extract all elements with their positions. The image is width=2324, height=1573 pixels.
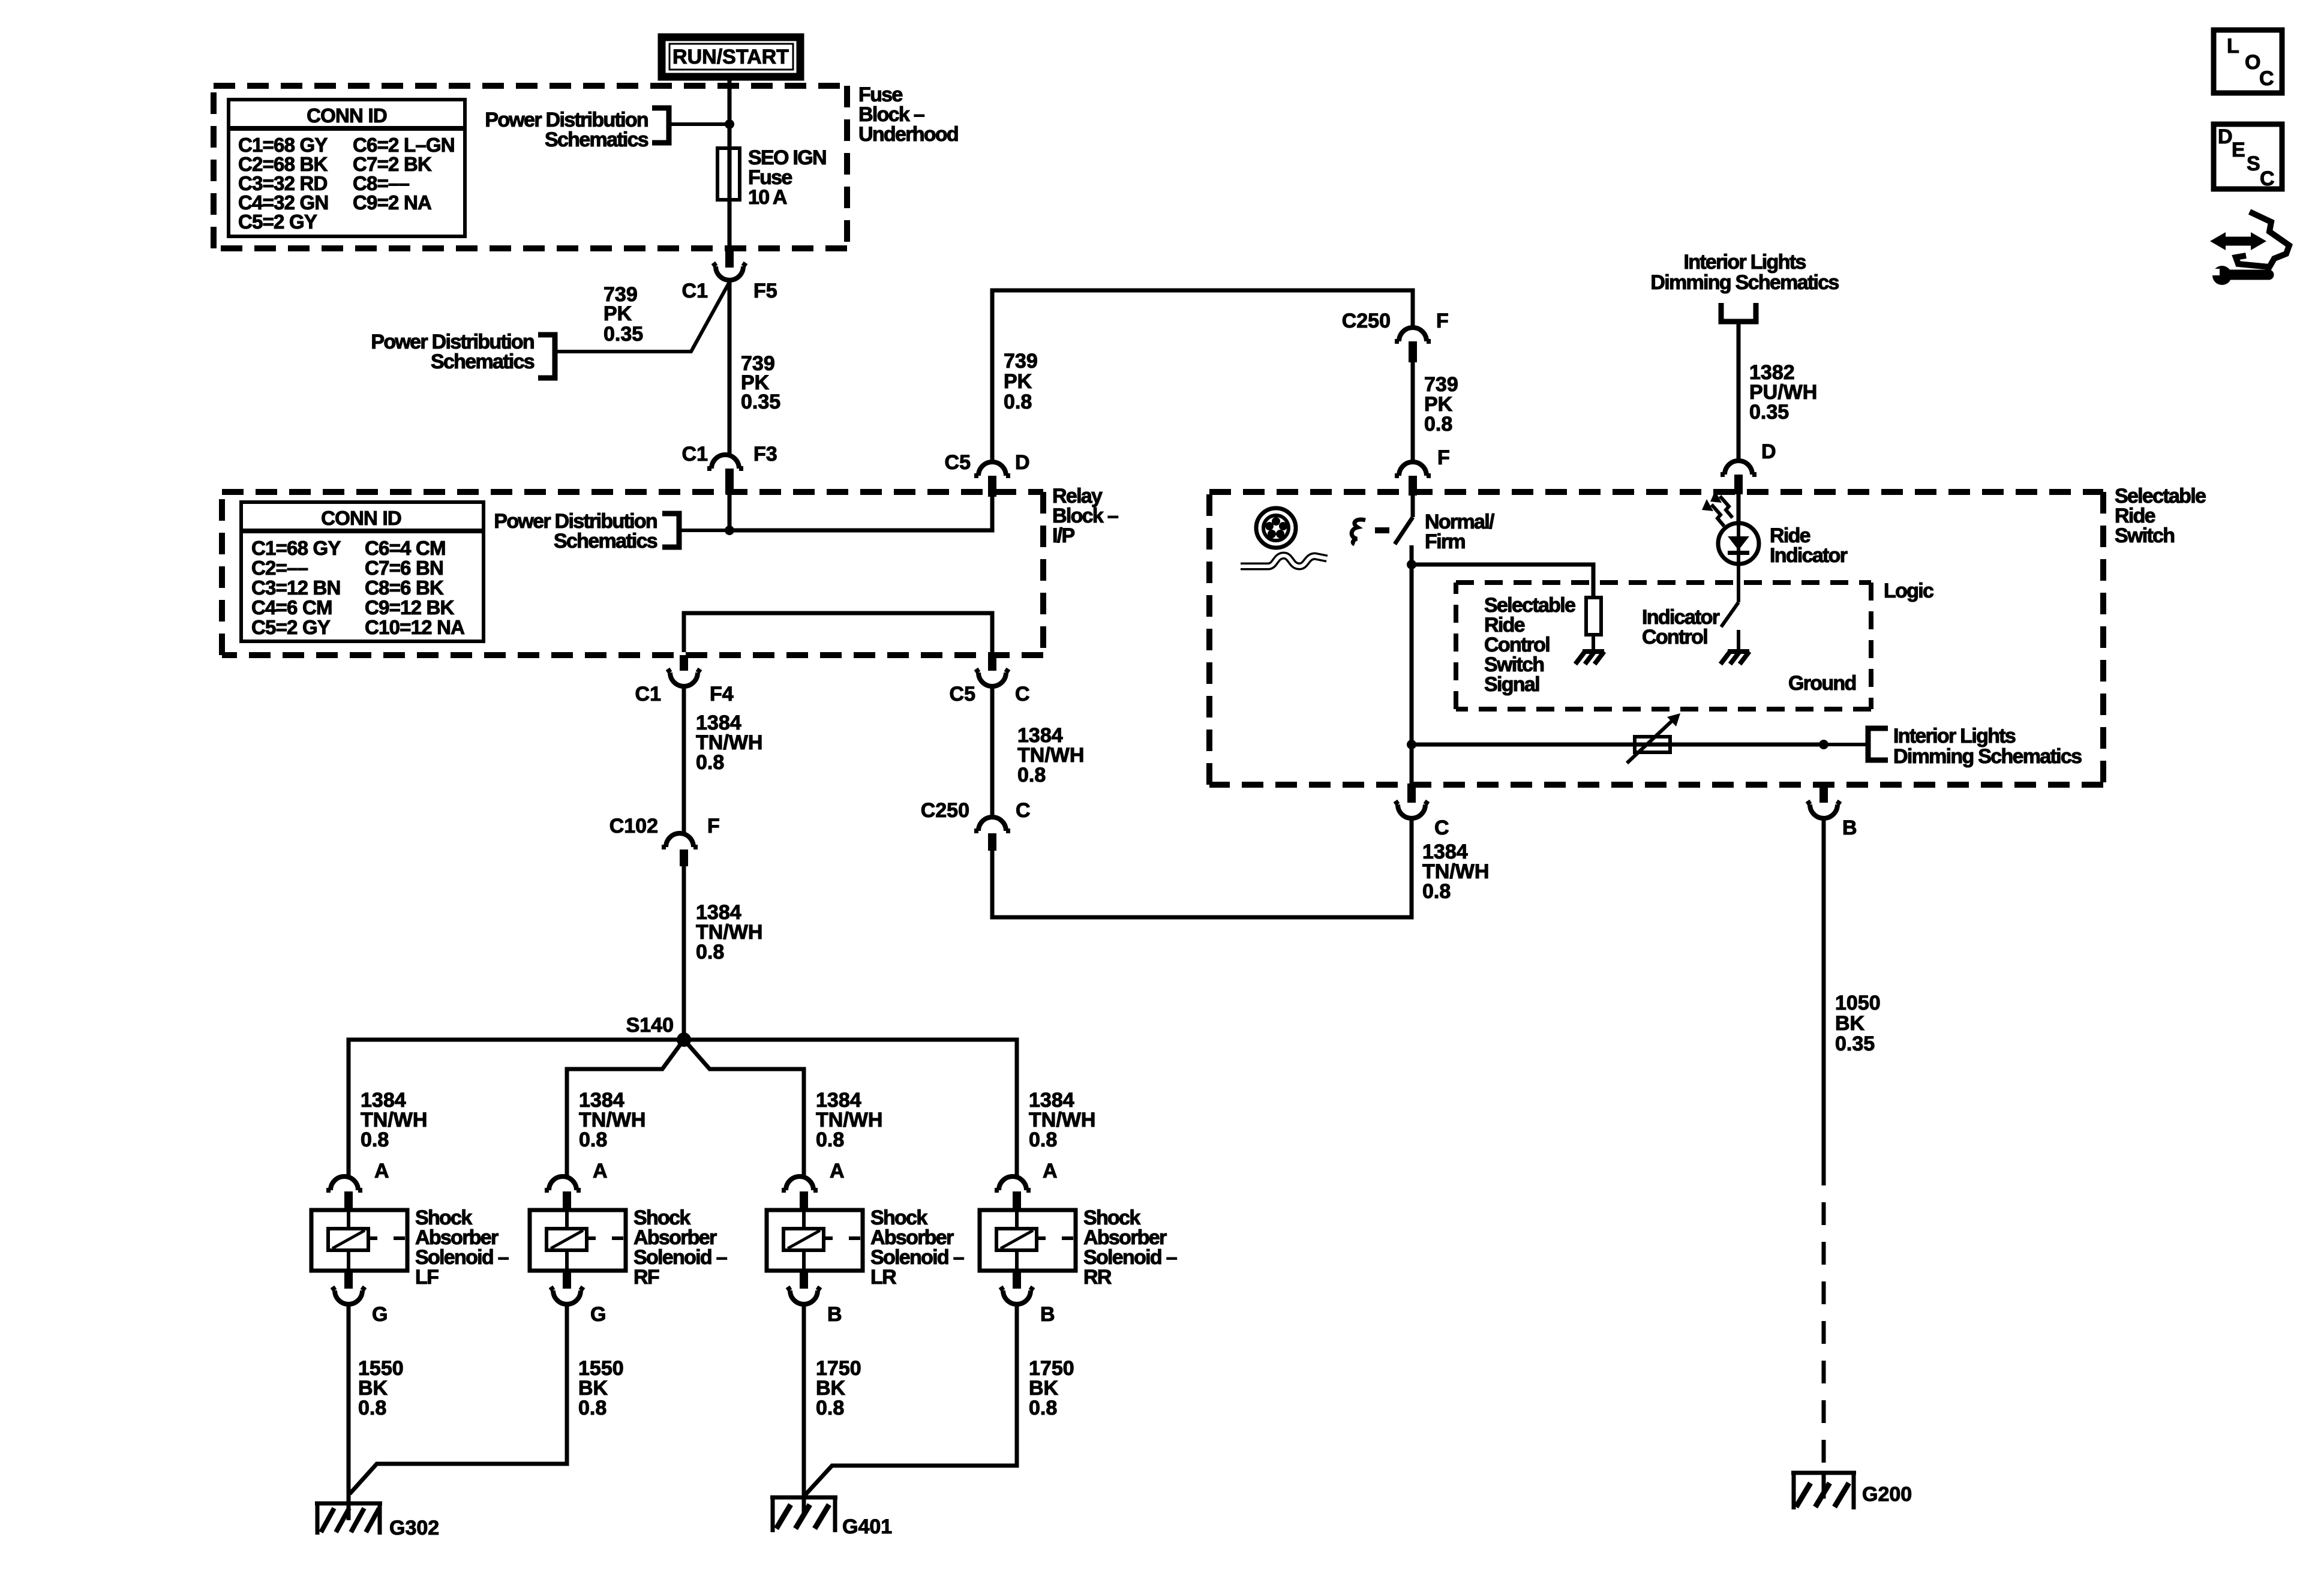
connector C5 D: [945, 451, 1030, 497]
resistor (switch signal pull-up): [1586, 598, 1601, 635]
svg-text:CONN ID: CONN ID: [307, 104, 387, 127]
wire F into switch: [1411, 496, 1415, 517]
wire LED to indicator control switch: [1737, 564, 1740, 602]
Relay Block - I/P dashed box: [222, 492, 1043, 655]
svg-text:F3: F3: [753, 443, 777, 466]
svg-text:Ground: Ground: [1788, 672, 1856, 695]
dashed ground run to G200: [1822, 1163, 1826, 1470]
road wave icon: [1241, 556, 1327, 566]
svg-text:A: A: [593, 1160, 608, 1182]
svg-text:RUN/START: RUN/START: [672, 46, 789, 68]
Fuse Block - Underhood dashed box: [214, 86, 847, 248]
bracket to Interior Lights Dimming Schematics: [1868, 728, 1888, 760]
connector C (switch bottom): [1395, 784, 1449, 839]
connector C1 F3: [682, 443, 777, 494]
top horizontal wire to C250 branch: [992, 290, 1413, 462]
wire relay junction to C5 D: [729, 497, 992, 530]
wire bracket to relay junction: [679, 529, 729, 532]
svg-text:L: L: [2227, 35, 2239, 58]
LED Ride Indicator: [1718, 523, 1759, 564]
LOC navigation box: [2214, 30, 2282, 93]
CONN ID table (fuse block): [229, 100, 465, 236]
junction node in relay block: [725, 526, 734, 535]
S140 inner branch right: [684, 1040, 804, 1176]
rheostat (illumination dimmer): [1627, 713, 1680, 763]
svg-text:D: D: [1015, 451, 1030, 474]
wire junction down to connector C: [1410, 565, 1414, 784]
svg-text:C1: C1: [682, 443, 708, 466]
svg-text:B: B: [1842, 816, 1857, 839]
wire from RUN/START into fuse block: [728, 80, 732, 124]
shock absorber solenoid RR: [980, 1206, 1177, 1289]
svg-text:G401: G401: [842, 1515, 892, 1538]
bracket below interior lights label: [1721, 303, 1756, 322]
svg-text:G200: G200: [1862, 1483, 1912, 1506]
svg-text:C1: C1: [635, 683, 661, 706]
svg-text:G: G: [372, 1303, 388, 1326]
connector G (LF): [332, 1271, 388, 1326]
connector B (switch bottom): [1807, 784, 1857, 839]
svg-text:F: F: [1437, 446, 1450, 469]
svg-text:C250: C250: [1342, 310, 1391, 332]
connector B (RR): [1001, 1271, 1055, 1326]
ground (indicator control): [1721, 652, 1749, 664]
shock absorber solenoid RF: [530, 1206, 727, 1289]
connector G (RF): [551, 1271, 606, 1326]
svg-text:E: E: [2232, 139, 2245, 161]
switch mechanical linkage curl: [1352, 520, 1365, 544]
bracket to Power Distribution Schematics (branch): [538, 335, 555, 378]
junction node at fuse feed: [725, 119, 734, 129]
svg-text:F4: F4: [710, 683, 734, 706]
svg-text:D: D: [1761, 440, 1776, 463]
splice S140 node: [677, 1032, 691, 1047]
connector A (RR): [995, 1160, 1058, 1209]
wire junction to fuse: [728, 124, 732, 248]
navigation arrow icon: [2210, 212, 2289, 267]
connector C5 C: [950, 655, 1030, 706]
svg-text:C: C: [2259, 67, 2274, 90]
svg-text:C1=68 GYC2=68 BKC3=32 RDC4=32: C1=68 GYC2=68 BKC3=32 RDC4=32 GNC5=2 GY: [238, 134, 328, 233]
svg-text:F: F: [707, 815, 720, 837]
indicator control lower contact: [1737, 630, 1740, 652]
S140 distribution bus: [349, 1040, 1017, 1176]
SEO IGN fuse 10 A: [717, 146, 826, 209]
svg-text:G: G: [590, 1303, 606, 1326]
wire B to ground run: [1822, 818, 1826, 1163]
wire junction to logic resistor: [1412, 565, 1593, 598]
shock absorber solenoid LF: [311, 1206, 509, 1289]
connector C250 F: [1342, 310, 1449, 362]
Logic dashed box: [1456, 583, 1871, 709]
svg-text:F5: F5: [753, 280, 777, 302]
connector C1 F5: [682, 248, 777, 302]
ground G302: [315, 1503, 439, 1539]
svg-text:C250: C250: [921, 799, 969, 822]
svg-text:A: A: [830, 1160, 845, 1182]
ground G401: [770, 1497, 892, 1538]
wire C1 F3 into relay block: [728, 494, 732, 530]
svg-text:S: S: [2247, 152, 2260, 175]
Selectable Ride Switch dashed box: [1209, 492, 2103, 785]
CONN ID table (relay block): [241, 502, 484, 641]
wire RR join to G401: [805, 1304, 1017, 1495]
bracket to Power Distribution Schematics (fuse block): [652, 108, 669, 143]
svg-text:B: B: [827, 1303, 842, 1326]
connector A (LF): [326, 1160, 389, 1209]
connector F (switch): [1395, 446, 1450, 496]
branch wire to Power Distribution Schematics: [557, 282, 729, 352]
wire LF to ground G302: [347, 1304, 351, 1503]
svg-text:S140: S140: [626, 1014, 674, 1037]
LED light arrows: [1702, 491, 1733, 526]
svg-text:C1=68 GYC2=––C3=12 BNC4=6 CMC5: C1=68 GYC2=––C3=12 BNC4=6 CMC5=2 GY: [251, 537, 341, 638]
wire C1 F4 to C102 F: [682, 686, 686, 834]
wire bracket to junction: [669, 122, 729, 126]
svg-text:C: C: [2260, 167, 2275, 190]
wire C250 F down to switch: [1411, 362, 1415, 462]
svg-text:A: A: [374, 1160, 389, 1182]
connector C250 C: [921, 799, 1031, 851]
ground G200: [1791, 1473, 1912, 1509]
connector A (RF): [545, 1160, 608, 1209]
svg-text:C: C: [1434, 816, 1449, 839]
switch mechanical linkage dash: [1375, 527, 1389, 533]
svg-text:C5: C5: [950, 683, 975, 706]
connector C1 F4: [635, 655, 734, 706]
wire resistor to ground: [1592, 635, 1595, 650]
junction node dimmer right: [1819, 740, 1828, 749]
wire bracket to connector D: [1737, 322, 1741, 461]
connector B (LR): [788, 1271, 842, 1326]
DESC navigation box: [2214, 124, 2282, 190]
svg-text:C102: C102: [609, 815, 658, 837]
ground (switch signal): [1575, 652, 1604, 664]
svg-text:C: C: [1015, 683, 1030, 706]
svg-text:B: B: [1040, 1303, 1055, 1326]
wire to Interior Lights bracket: [1824, 743, 1868, 746]
wire C5 C to C250 C: [990, 686, 995, 816]
svg-text:CONN ID: CONN ID: [321, 507, 401, 529]
wire RF join to G302: [350, 1304, 567, 1494]
ride mode dial icon: [1256, 508, 1296, 548]
wire C250 C to switch connector C: [992, 818, 1412, 917]
svg-text:D: D: [2218, 125, 2233, 148]
relay block internal output wire: [684, 613, 992, 652]
bracket to Power Distribution Schematics (relay block): [662, 514, 679, 547]
connector C102 F: [609, 815, 720, 866]
wire C1 F5 to C1 F3: [728, 280, 732, 455]
junction node dimmer left: [1407, 740, 1416, 749]
svg-text:F: F: [1436, 310, 1449, 332]
junction node below switch: [1407, 560, 1416, 569]
S140 inner branch left: [567, 1040, 684, 1176]
shock absorber solenoid LR: [767, 1206, 964, 1289]
connector A (LR): [782, 1160, 845, 1209]
switch lever Normal/Firm: [1395, 517, 1413, 544]
wire lever to junction: [1410, 545, 1414, 565]
svg-text:C5: C5: [945, 451, 971, 474]
wrench icon: [2211, 266, 2269, 285]
connector D: [1721, 440, 1776, 494]
svg-text:G302: G302: [389, 1517, 439, 1539]
wire D to LED: [1737, 494, 1741, 523]
svg-text:A: A: [1043, 1160, 1058, 1182]
wire LR to ground G401: [802, 1304, 806, 1497]
wire C102 F to S140: [682, 866, 686, 1040]
svg-text:C: C: [1016, 799, 1031, 822]
indicator control switch lever: [1721, 602, 1739, 627]
svg-text:O: O: [2245, 51, 2260, 74]
dimmer feed wire: [1412, 743, 1824, 747]
svg-text:Logic: Logic: [1884, 580, 1933, 602]
RUN/START power feed box: [662, 37, 800, 77]
svg-text:C1: C1: [682, 280, 708, 302]
